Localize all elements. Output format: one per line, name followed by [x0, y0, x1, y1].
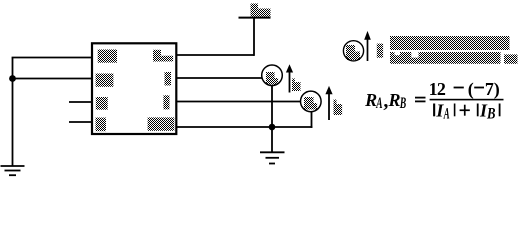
svg-text:R: R	[364, 90, 377, 110]
svg-text:): )	[494, 79, 500, 100]
svg-text:(: (	[468, 79, 474, 100]
svg-text:A: A	[376, 95, 383, 112]
svg-text:B: B	[486, 106, 495, 123]
svg-text:B: B	[399, 95, 406, 112]
svg-text:2: 2	[437, 79, 446, 99]
svg-text:R: R	[388, 90, 401, 110]
svg-text:A: A	[443, 106, 449, 123]
svg-text:7: 7	[485, 79, 494, 99]
